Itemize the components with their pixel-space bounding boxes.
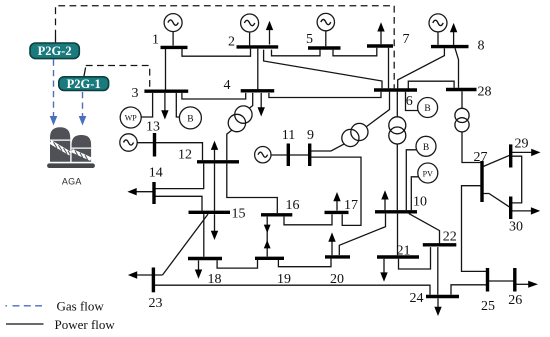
wire bus9 to transformer T69 (310, 144, 344, 151)
bus 27 (480, 161, 483, 202)
bus 9 (308, 144, 311, 167)
svg-text:Power flow: Power flow (55, 317, 116, 332)
injection arrow bus 10 up (381, 190, 388, 210)
svg-text:30: 30 (509, 220, 523, 235)
wire bus12-bus14 (154, 164, 204, 189)
wire bus6 to transformer T610 (396, 92, 398, 117)
wire bus12-bus15 (214, 164, 216, 211)
generator G1 at bus 1 (164, 14, 182, 46)
bus 1 (161, 46, 188, 49)
svg-text:11: 11 (282, 128, 295, 143)
svg-text:B: B (423, 143, 429, 153)
gas pipeline dashed P2G-2 to bus 6 (55, 37, 57, 44)
wire bus29-bus30 (511, 156, 522, 203)
svg-text:B: B (424, 104, 430, 114)
wire generator to bus11 (271, 154, 288, 156)
bus 11 (287, 144, 290, 167)
AGA gas storage tanks (47, 127, 95, 168)
wire bus24-bus25 (451, 285, 488, 295)
wire bus3-bus4 (182, 93, 246, 99)
wire bus25-bus26 (488, 280, 515, 282)
wire condenser B to bus6 (406, 92, 419, 111)
wire generator to bus13 (137, 142, 154, 144)
svg-text:AGA: AGA (62, 177, 82, 187)
bus 6 (374, 88, 417, 91)
wire bus10-bus21 (397, 214, 399, 256)
wire bus23-bus24 (153, 285, 430, 295)
svg-text:B: B (187, 115, 193, 125)
gas flow blue arrow from P2G-2 to AGA (50, 60, 58, 126)
wire bus27-bus29 (482, 155, 511, 167)
bus 12 (197, 160, 239, 163)
generator G8 at bus 8 (429, 14, 447, 45)
svg-text:6: 6 (406, 94, 413, 109)
wire bus2-bus4 (257, 49, 259, 90)
wire bus2-bus5 (272, 50, 321, 56)
generator G11 at bus 11 (255, 147, 271, 163)
condenser B at bus 6 (418, 98, 438, 118)
wire bus27-bus25 (462, 186, 488, 272)
svg-text:5: 5 (306, 32, 313, 47)
transformer T6-9 (342, 123, 368, 146)
PV unit at bus 10 (418, 163, 438, 183)
svg-text:7: 7 (403, 32, 410, 47)
wire bus3 to condenser B (176, 93, 179, 117)
wire bus10-bus20 (339, 214, 385, 256)
wire bus18-bus19 (217, 260, 257, 268)
condenser B at bus 3 (179, 107, 201, 129)
injection arrow bus 12 up (211, 141, 218, 161)
svg-text:19: 19 (277, 272, 291, 287)
svg-text:PV: PV (423, 169, 433, 178)
wire bus5-bus7 (333, 48, 377, 56)
load arrow bus 30 right (511, 207, 541, 214)
wire bus17-bus9 (310, 157, 361, 225)
svg-text:P2G-1: P2G-1 (67, 77, 101, 91)
svg-text:26: 26 (508, 293, 522, 308)
svg-text:2: 2 (228, 35, 235, 50)
wire bus12-bus16 (227, 164, 277, 214)
bus 28 (446, 88, 477, 91)
wire PV to bus10 (411, 177, 418, 210)
load arrow bus 21 down (380, 259, 387, 282)
load arrow bus 8 up (450, 23, 457, 45)
svg-text:16: 16 (286, 198, 300, 213)
bus 4 (241, 89, 275, 92)
transformer T6-10 (389, 117, 406, 144)
wire bus15-bus18 (203, 214, 205, 257)
svg-text:9: 9 (307, 128, 314, 143)
gas flow blue arrow from P2G-1 to AGA (79, 92, 87, 126)
bus 22 (423, 243, 457, 246)
bus 16 (261, 213, 292, 216)
load arrow bus 29 right (511, 149, 541, 156)
wire bus11-bus9 (288, 154, 309, 156)
wire bus27-bus30 (482, 194, 511, 208)
transformer T4-12 (227, 93, 253, 160)
wire bus28 to transformer T2827 (461, 91, 463, 108)
svg-text:15: 15 (232, 207, 246, 222)
svg-text:23: 23 (149, 296, 163, 311)
wire bus10-bus22 (409, 214, 440, 244)
transformer T28-27 (455, 108, 469, 132)
wire bus4-bus6 (269, 92, 381, 98)
wire transformer T69 to bus6 (367, 92, 390, 127)
wire bus2-bus6 (264, 50, 382, 89)
load arrow bus 3 down (161, 93, 168, 120)
wire bus1-bus3 (165, 49, 167, 90)
wire bus15-bus23 (163, 214, 209, 275)
load arrow bus 15 down (211, 214, 218, 240)
generator G5 at bus 5 (317, 13, 334, 46)
load arrow bus 24 down (434, 298, 441, 316)
load arrow bus 4 down (258, 93, 265, 117)
svg-text:10: 10 (413, 195, 427, 210)
svg-text:21: 21 (397, 244, 411, 259)
wire bus21-bus22 (399, 247, 431, 269)
wire condenser B to bus10 (406, 150, 416, 210)
svg-text:8: 8 (478, 39, 485, 54)
bus 3 (144, 89, 188, 92)
bus 30 (509, 197, 512, 220)
svg-text:Gas flow: Gas flow (57, 299, 105, 314)
svg-text:14: 14 (149, 165, 163, 180)
wire bus16-bus17 (284, 214, 332, 225)
wire bus16-bus19 with flow arrows (264, 217, 271, 257)
bus 10 (375, 210, 417, 213)
wire bus3 to WP generator (141, 93, 152, 117)
bus 25 (486, 268, 489, 292)
wire bus14-bus15 (154, 196, 202, 210)
generator G2 at bus 2 (241, 14, 259, 46)
svg-text:4: 4 (224, 78, 231, 93)
svg-text:3: 3 (132, 86, 139, 101)
injection arrow bus 20 up (328, 232, 335, 255)
wire bus19-bus20 (278, 259, 331, 267)
P2G-2 unit box (30, 43, 79, 59)
svg-text:28: 28 (478, 85, 492, 100)
svg-text:1: 1 (152, 33, 159, 48)
bus 13 (153, 133, 156, 157)
bus 29 (509, 144, 512, 167)
bus 17 (325, 211, 349, 214)
wire bus6-bus8 (398, 48, 445, 88)
load arrow bus 7 up (377, 22, 384, 44)
svg-text:24: 24 (410, 291, 424, 306)
wire bus13-bus12 (155, 143, 203, 160)
injection arrow bus 17 up (333, 192, 340, 211)
bus 24 (426, 295, 459, 298)
condenser B at bus 10 (416, 136, 436, 156)
load arrow bus 18 down (195, 260, 202, 279)
svg-text:P2G-2: P2G-2 (38, 44, 72, 58)
svg-text:29: 29 (515, 137, 529, 152)
bus 20 (325, 255, 350, 258)
load arrow bus 2 up (266, 21, 273, 45)
load arrow bus 23 left (128, 271, 163, 278)
bus 15 (189, 211, 231, 214)
bus 7 (367, 44, 393, 47)
svg-text:18: 18 (208, 272, 222, 287)
wind generator WP at bus 3 (120, 107, 141, 128)
legend gas flow dashed sample (6, 305, 43, 307)
svg-text:27: 27 (474, 150, 488, 165)
wire bus6-bus7 (388, 48, 390, 89)
bus 2 (237, 45, 279, 48)
wire bus1-bus2 (182, 49, 251, 57)
legend power flow line sample (6, 323, 44, 325)
svg-text:13: 13 (146, 120, 160, 135)
bus 18 (188, 257, 222, 260)
load arrow bus 14 left (127, 188, 153, 195)
wire bus8-bus28 (455, 48, 459, 88)
bus 19 (255, 257, 284, 260)
svg-text:17: 17 (344, 198, 358, 213)
gas pipeline dashed P2G-1 to bus 3 (84, 68, 86, 78)
bus 8 (431, 45, 469, 48)
svg-text:25: 25 (481, 299, 495, 314)
wire bus6-bus28 (408, 81, 454, 92)
svg-text:12: 12 (178, 148, 192, 163)
bus 26 (513, 268, 516, 292)
load arrow bus 26 right (515, 281, 538, 288)
svg-text:22: 22 (443, 230, 457, 245)
bus 5 (308, 46, 341, 49)
wire transformer T2827 to bus27 (462, 132, 482, 163)
generator G13 at bus 13 (120, 134, 137, 151)
wire transformer T610 to bus10 (396, 144, 398, 210)
wire bus22-bus24 (437, 247, 439, 295)
bus 21 (377, 255, 419, 258)
bus 14 (152, 182, 155, 204)
bus 23 (152, 268, 155, 293)
svg-text:WP: WP (125, 114, 138, 123)
P2G-1 unit box (59, 77, 109, 91)
svg-text:20: 20 (330, 272, 344, 287)
